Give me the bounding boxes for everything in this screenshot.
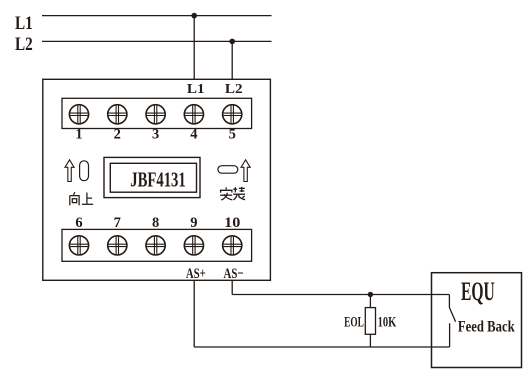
svg-text:5: 5: [229, 127, 236, 143]
label 向上 (up): [70, 192, 93, 205]
label 安装 (install): [220, 187, 245, 200]
resistor EOL 10K body: [365, 308, 375, 335]
terminal 3: [146, 104, 166, 124]
module JBF4131 outline: [43, 79, 271, 280]
svg-text:JBF4131: JBF4131: [130, 168, 185, 191]
svg-text:AS−: AS−: [224, 264, 244, 281]
wire L1 rail: [42, 15, 272, 17]
svg-text:10: 10: [224, 215, 241, 231]
svg-text:AS+: AS+: [186, 264, 206, 281]
icon slot vertical: [80, 161, 89, 181]
wire AS+ vertical drop: [193, 280, 195, 347]
svg-text:3: 3: [152, 127, 159, 143]
icon slot horizontal: [218, 166, 238, 174]
wire AS- horizontal run: [232, 294, 449, 296]
wire resistor top lead: [369, 295, 371, 308]
svg-text:EQU: EQU: [461, 277, 495, 306]
terminal 9: [184, 235, 204, 255]
terminal 4: [184, 104, 204, 124]
svg-text:8: 8: [152, 215, 159, 231]
svg-text:9: 9: [190, 215, 197, 231]
svg-text:L1: L1: [187, 82, 205, 97]
terminal 7: [107, 235, 127, 255]
icon up-arrow (install): [241, 160, 250, 182]
terminal 10: [222, 235, 242, 255]
terminal strip bottom: [62, 229, 252, 261]
terminal 6: [69, 235, 89, 255]
svg-text:EOL: EOL: [344, 313, 364, 330]
switch blade: [449, 308, 455, 322]
svg-text:L1: L1: [15, 12, 33, 33]
terminal 1: [69, 104, 89, 124]
wire L2 rail: [42, 40, 272, 42]
terminal 5: [222, 104, 242, 124]
svg-text:6: 6: [75, 215, 82, 231]
display window: [110, 163, 196, 192]
svg-text:4: 4: [190, 127, 197, 143]
terminal strip top: [62, 98, 252, 128]
switch upper contact: [448, 295, 450, 308]
terminal 8: [146, 235, 166, 255]
wire L1 drop to module: [193, 16, 195, 80]
svg-text:10K: 10K: [378, 312, 397, 329]
svg-text:1: 1: [75, 127, 82, 143]
display bezel: [104, 157, 200, 197]
wire AS- vertical drop: [231, 280, 233, 294]
svg-text:7: 7: [114, 215, 121, 231]
wire resistor bottom lead: [369, 334, 371, 347]
svg-text:Feed Back: Feed Back: [458, 319, 515, 336]
junction on L1 rail: [191, 13, 197, 19]
icon up-arrow (orientation): [65, 160, 74, 182]
switch lower contact: [449, 323, 451, 347]
wire AS+ horizontal run: [194, 346, 449, 348]
terminal 2: [107, 104, 127, 124]
wire L2 drop to module: [231, 41, 233, 79]
svg-text:L2: L2: [15, 33, 33, 54]
EQU box outline: [432, 273, 522, 368]
junction on L2 rail: [229, 39, 235, 45]
svg-text:L2: L2: [225, 82, 243, 97]
junction node at resistor: [368, 292, 373, 297]
svg-text:2: 2: [114, 127, 121, 143]
